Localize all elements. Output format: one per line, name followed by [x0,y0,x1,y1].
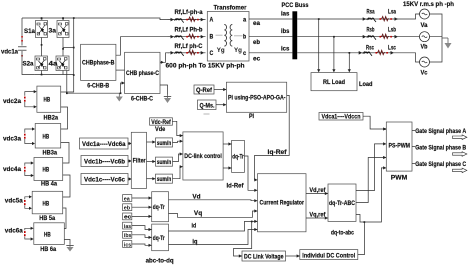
block dq-Tr-ABC [328,184,356,221]
wire sum1 to DC-link [173,141,183,142]
svg-text:Transfomer: Transfomer [214,5,248,12]
block HB3a [35,124,61,149]
block Individul DC Control [300,250,358,260]
wire ibs to dq-Tr2 [132,235,152,238]
svg-text:dq-Tr-ABC: dq-Tr-ABC [329,201,356,207]
svg-text:Gate Signal phase B: Gate Signal phase B [415,146,467,152]
block tag ibs [123,231,132,238]
wire phase a bus to Rsa branch [297,18,362,20]
svg-text:DC-link control: DC-link control [184,153,222,160]
svg-text:PS-PWM: PS-PWM [389,142,411,149]
svg-text:b: b [243,35,246,41]
wire DC-link to dq-Tr lower [223,167,232,169]
wire Q-Ref to PI [214,89,226,91]
branch RL series phase a [168,17,206,23]
block tag ias [123,222,132,229]
wire HB4a to HB5a chain [63,175,70,197]
svg-text:Gate Signal phase C: Gate Signal phase C [415,162,467,168]
wire gate A out [412,129,415,131]
junction dot phase-a rail [73,17,75,19]
block Filter [131,132,146,188]
wire filter to sum2 [147,161,156,163]
svg-text:600 ph-ph To 15KV ph-ph: 600 ph-ph To 15KV ph-ph [166,63,245,70]
ground under CHB-B [116,93,123,101]
block HB4a [34,158,63,181]
svg-text:RL Load: RL Load [323,79,345,86]
block RL Load [311,73,357,91]
wire midpoint column 2 [62,38,64,57]
svg-text:HB 5a: HB 5a [39,215,55,222]
block dq-Tr mid [232,140,245,172]
block DC Link Voltage [242,251,286,261]
wire ec transformer to bus [249,52,292,54]
svg-text:abc-to-dq: abc-to-dq [146,258,174,265]
svg-text:vdc2a: vdc2a [3,98,21,105]
svg-text:Va: Va [421,22,429,29]
wire dq-Tr to current regulator (Id-Ref) [244,156,257,190]
svg-text:Current Regulator: Current Regulator [260,200,305,207]
wire eb transformer to bus [249,36,292,38]
svg-text:PCC Buss: PCC Buss [282,2,309,9]
wire gate C out [412,162,415,164]
svg-text:Yg: Yg [217,47,225,54]
svg-text:CHBphase-B: CHBphase-B [82,60,115,67]
ground under CHB-C [164,95,171,104]
wire drop to RL load phase a [318,19,320,70]
svg-text:HB: HB [43,201,50,208]
wire sum2 to DC-link [173,154,183,162]
block dq-Tr abc1 [152,192,169,222]
svg-text:vdc3a: vdc3a [3,136,21,143]
svg-text:Rf,Lf ph-C: Rf,Lf ph-C [175,43,203,50]
svg-text:Vc: Vc [421,70,429,77]
svg-text:vdc1a: vdc1a [1,49,18,56]
wire ea transformer to bus [249,18,292,20]
svg-text:Q-Ref: Q-Ref [196,87,213,94]
svg-text:Lsc: Lsc [388,45,396,52]
block HB6a [34,223,65,245]
svg-text:dq-Tr: dq-Tr [153,205,166,211]
measurement stub vdc4a [24,161,34,177]
wire Q-Ms to PI [216,104,226,106]
block PS-PWM [386,122,412,171]
svg-text:4a: 4a [49,61,59,68]
measurement stub vdc6a [24,227,34,241]
wire sum3 to DC-link [173,167,183,179]
svg-text:ea: ea [253,20,261,27]
block tag eb [123,204,132,211]
svg-text:ics: ics [281,46,290,53]
svg-text:dq-Tr: dq-Tr [153,236,166,242]
svg-text:Vb: Vb [421,44,428,51]
wire top DC rail of expanded H-bridge [22,17,77,19]
wire midpoint column 1 [41,38,43,57]
svg-text:Rsc: Rsc [366,45,374,52]
svg-text:HB: HB [44,232,51,239]
wire drop to RL load phase c [348,53,350,70]
block tag ics [123,241,132,248]
coil primary [224,25,226,47]
wire eb to dq-Tr1 [132,206,152,208]
svg-text:Rsb: Rsb [367,27,375,34]
svg-text:Rf,Lf-ph-a: Rf,Lf-ph-a [175,9,204,16]
svg-text:ics: ics [124,242,131,248]
block tag ea [123,195,132,202]
block sum/n 3 [156,174,173,183]
svg-text:vdc4a: vdc4a [3,166,21,173]
wire phase-a net from bridge to branch [77,18,167,20]
junction dots lower bus [66,74,121,94]
wire midpoint tap to riser [63,47,74,49]
wire Vd,ref to dq-Tr-ABC [306,193,328,195]
node red measurement dots vdc1a [21,36,23,57]
block HB5a [32,191,63,214]
wire iq to current regulator [169,230,258,245]
block tag ec [123,213,132,220]
annotation arrow C [453,168,467,173]
svg-text:ias: ias [124,224,131,230]
svg-text:ias: ias [281,11,290,18]
capacitor C vdc1a [18,47,27,50]
svg-text:ibs: ibs [124,233,132,239]
svg-text:Vdc1c----Vc6c: Vdc1c----Vc6c [84,178,126,184]
block Q-Ref [194,85,214,94]
svg-text:Lsb: Lsb [388,27,396,34]
svg-text:HB: HB [44,97,51,104]
svg-text:Vdca1----Vdccn: Vdca1----Vdccn [322,114,361,121]
bus bar PCC [292,11,297,59]
wire id to current regulator [169,221,258,231]
transistor S2a [35,56,48,71]
svg-text:Yg: Yg [234,47,242,54]
wire ec to dq-Tr1 [132,215,152,217]
svg-text:Individul DC Control: Individul DC Control [302,253,355,259]
svg-text:Vq,ref: Vq,ref [309,212,326,219]
arrow into CHB-C lower input [122,81,125,84]
wire dq-Tr-ABC out2 to PS-PWM in3 [356,158,386,203]
transformer T1 [207,12,249,62]
wire CHB-C to ground [160,85,168,95]
source Vb [420,32,430,42]
wire sources common rail [430,14,443,62]
svg-text:dq-to-abc: dq-to-abc [331,229,354,236]
wire Vdc-Ref to DC-link control [172,121,183,135]
svg-text:Id-Ref: Id-Ref [227,183,245,190]
block sum/n 1 [156,138,173,147]
wire Vdc1b row to filter [128,160,131,162]
svg-text:id: id [192,223,197,230]
svg-text:HB3a: HB3a [43,150,58,157]
svg-text:Lsa: Lsa [388,9,396,16]
wire Vq to current regulator [169,211,258,217]
wire Vdc1c row to filter [128,178,131,180]
wire Vdc1a row to filter [128,143,131,145]
svg-text:HB2a: HB2a [44,115,59,122]
annotation arrow A [453,135,467,140]
branch RL series source a [362,17,398,23]
svg-text:S2a: S2a [23,61,34,68]
svg-text:DC Link Voltage: DC Link Voltage [244,255,284,261]
transistor S3a [57,18,69,38]
wire S4a bottom to lower bus [67,71,125,94]
wire DC Link Voltage to Individul DC Control [286,255,300,257]
svg-text:Gate Signal phase A: Gate Signal phase A [415,129,467,135]
svg-text:Q-Ms.: Q-Ms. [200,103,215,110]
wire bottom DC rail [35,71,74,75]
svg-text:dq-Tr: dq-Tr [232,155,244,161]
svg-text:Rsa: Rsa [367,9,375,16]
wire HB2a output up to phase-a net [61,18,74,92]
block PI using PSO-APO-GA [226,82,286,112]
svg-text:sum/n: sum/n [157,141,172,147]
block dq-Tr abc2 [152,224,169,251]
transistor S1a [36,18,48,38]
block HB2a [37,86,61,112]
svg-text:Vdc1b----Vc6b: Vdc1b----Vc6b [84,160,125,166]
svg-text:3a: 3a [49,28,57,35]
svg-text:Rf,Lf Ph-b: Rf,Lf Ph-b [175,27,203,34]
wire CHB-C output to phase-c net [160,53,169,63]
svg-text:vdc6a: vdc6a [5,228,23,235]
wire ias to dq-Tr2 [132,226,152,230]
wire gate B out [412,146,415,148]
junction dot PS-PWM input1 [384,128,386,130]
wire dq-Tr-ABC out3 to PS-PWM in4 [356,168,386,222]
block CHB phase-C [125,52,160,93]
tick under Q-Ms [204,113,210,115]
wire filter to sum3 [147,178,156,180]
svg-text:Vdc1a----Vdc6a: Vdc1a----Vdc6a [82,142,126,148]
wire phase c bus to Rsc branch [297,52,358,54]
svg-text:Load: Load [359,81,373,88]
coil secondary [230,25,232,47]
wire ea to dq-Tr1 [132,197,152,199]
svg-text:CHB phase-C: CHB phase-C [126,70,159,77]
svg-text:HB 4a: HB 4a [41,181,57,188]
arrowheads into RL load [317,69,351,72]
svg-text:C: C [210,51,214,57]
wire filter to sum1 [147,141,156,143]
branch RL series source c [358,50,394,56]
svg-text:vdc5a: vdc5a [5,198,23,205]
svg-text:HB: HB [43,167,50,174]
wire id net to DC Link Voltage [234,221,252,256]
svg-text:sum/n: sum/n [157,160,172,166]
wire CHB-B to CHB-C link [116,69,125,71]
wire into Va [398,14,420,19]
svg-text:Filter: Filter [133,158,146,165]
transistor S4a [56,56,69,71]
wire HB6a to ground [64,240,70,245]
svg-text:PWM: PWM [391,174,408,181]
svg-text:sum/n: sum/n [157,177,172,183]
wire dq-Tr-ABC out1 to PS-PWM in2 [356,144,386,191]
wire PI output to Iq-Ref [255,95,290,179]
svg-text:15KV r.m.s ph -ph: 15KV r.m.s ph -ph [403,1,454,8]
svg-text:eb: eb [124,206,131,212]
block Q-Ms. [198,100,217,110]
wire drop to RL load phase b [333,37,335,70]
annotation arrow B [453,152,467,157]
svg-text:Pi using-PSO-APO-GA-: Pi using-PSO-APO-GA- [228,95,286,102]
block DC-link control [183,132,223,180]
block Vdc-Ref [150,118,173,125]
svg-text:Vq: Vq [194,210,203,217]
wire Vd to current regulator [169,199,258,202]
wire Vdca1 to PS-PWM [363,116,386,129]
wire Individul DC Control up to in4 net [358,222,365,255]
svg-text:S1a: S1a [24,28,35,35]
block Current Regulator [258,174,307,232]
svg-text:B: B [210,35,214,41]
block CHBphase-B [81,44,116,80]
wire into Vc [394,53,420,62]
wire phase b bus to Rsb branch [297,36,362,38]
junction dots on bus lines [318,18,350,54]
wire into Vb [398,36,420,38]
wire HB3a to HB4a chain [61,143,69,164]
svg-text:Vdc-Ref: Vdc-Ref [151,120,171,126]
wire CHB-B output to phase-b net [116,37,168,56]
branch RL series source b [362,34,398,40]
branch RL series phase b [168,34,206,40]
svg-text:Vde: Vde [155,126,166,133]
svg-text:ec: ec [253,55,261,62]
svg-text:Vd: Vd [192,193,200,200]
svg-text:Vd,ref: Vd,ref [309,187,326,194]
svg-text:eb: eb [253,39,260,46]
svg-text:HB 6a: HB 6a [40,246,56,253]
wire left DC rail upper [21,18,23,46]
svg-text:6-CHB-C: 6-CHB-C [131,96,153,103]
measurement stub vdc5a [24,195,32,210]
svg-text:ibs: ibs [281,28,290,35]
wire HB5a to HB6a chain [63,208,66,229]
svg-text:A: A [210,18,214,24]
svg-text:HB: HB [43,134,50,141]
measurement stub vdc2a [24,90,37,108]
ground under HB6a [66,244,73,252]
block sum/n 2 [156,157,173,166]
source Va [420,9,430,19]
junction dots bridge [41,17,64,75]
coil stub lines [216,34,243,37]
svg-text:ea: ea [124,196,131,202]
ground right rail [442,38,452,49]
wire Vq,ref to dq-Tr-ABC [306,217,328,219]
source Vc [420,57,430,67]
wire ics to dq-Tr2 [132,244,152,245]
svg-text:6-CHB-B: 6-CHB-B [87,83,109,90]
wire left DC rail lower [22,51,35,75]
branch RL series phase c [168,50,206,56]
junction dot idc net [364,221,366,223]
measurement stub vdc3a [24,127,35,145]
wire HB2a to HB3a chain [61,107,68,129]
wire DC-link to dq-Tr upper [223,143,232,145]
svg-text:Iq-Ref: Iq-Ref [268,149,288,156]
svg-text:PI: PI [249,113,254,120]
svg-text:ec: ec [124,215,131,221]
